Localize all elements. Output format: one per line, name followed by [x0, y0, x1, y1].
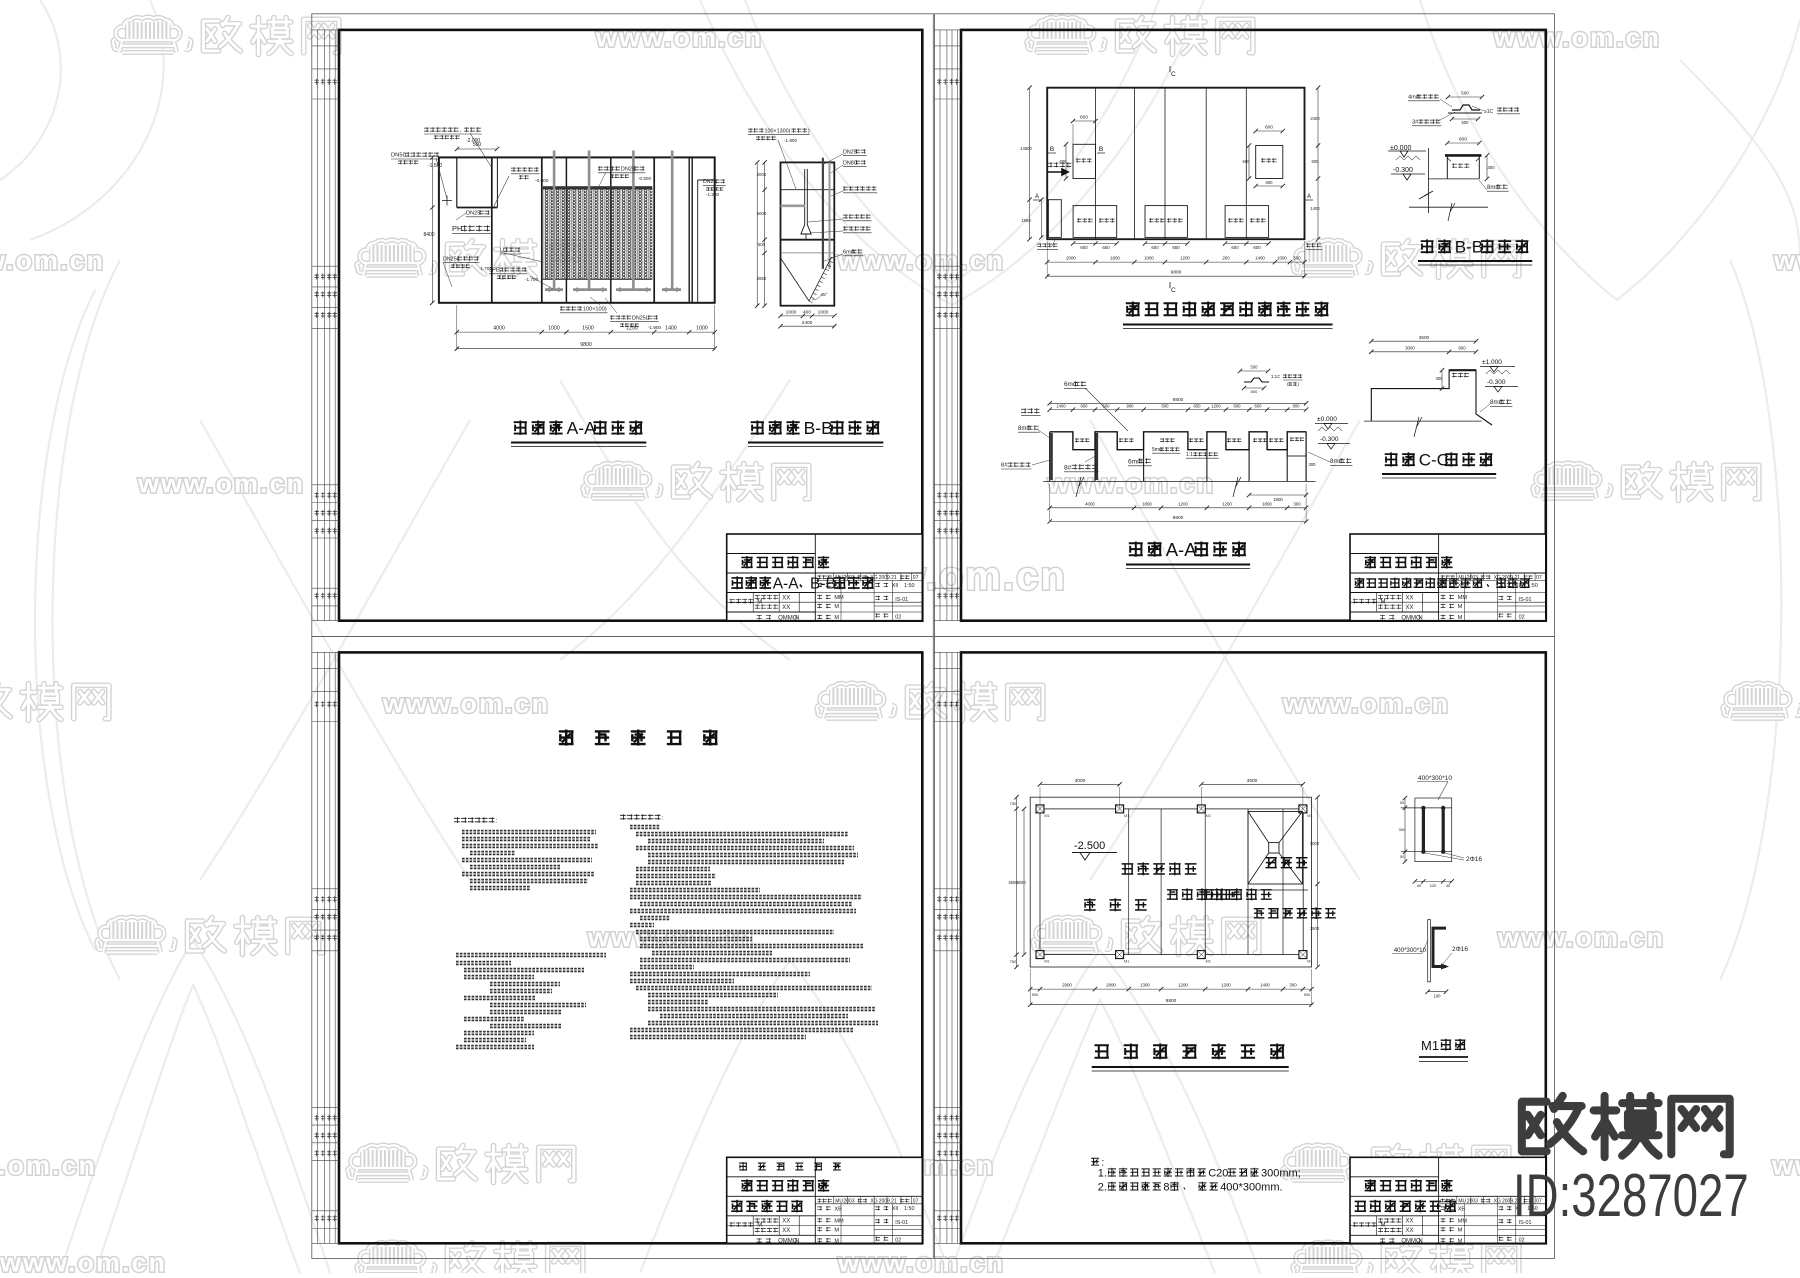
svg-text:M: M [1458, 1227, 1463, 1233]
svg-text:XX: XX [1406, 1219, 1414, 1225]
svg-text:500: 500 [1251, 365, 1259, 370]
svg-text:M: M [834, 1238, 839, 1244]
svg-text:1:1: 1:1 [1186, 452, 1193, 458]
svg-text:600: 600 [1265, 125, 1273, 131]
svg-text:600: 600 [1231, 245, 1239, 250]
B-B dims [781, 315, 835, 317]
sheet4 pool labels [1122, 862, 1197, 875]
svg-text:650: 650 [1194, 403, 1202, 408]
svg-text:XG: XG [1494, 575, 1501, 581]
svg-text:1200: 1200 [1178, 983, 1188, 988]
svg-text:M: M [1458, 615, 1463, 621]
svg-text:-0.000: -0.000 [535, 178, 549, 184]
svg-text:DN80: DN80 [843, 160, 857, 166]
svg-text:600: 600 [1312, 159, 1320, 164]
svg-text:500: 500 [1462, 120, 1470, 125]
sheet2: A-A long profile [1050, 432, 1306, 450]
svg-text:8400: 8400 [423, 232, 434, 238]
sheet 1 signature strip [312, 30, 339, 621]
svg-text:200: 200 [1222, 256, 1230, 261]
sheet4 plan dims [1040, 783, 1120, 785]
svg-text:100: 100 [1434, 994, 1442, 999]
sheet 4 outer border [934, 636, 1554, 1258]
A-A labels inside [1075, 438, 1089, 442]
svg-text:A-A: A-A [1166, 539, 1198, 560]
svg-text::: : [662, 814, 664, 821]
svg-text:±1.000: ±1.000 [1482, 359, 1502, 366]
svg-text:400*300*10: 400*300*10 [1418, 775, 1452, 782]
svg-text:±0.000: ±0.000 [1317, 416, 1337, 423]
svg-text:4000: 4000 [493, 326, 505, 332]
svg-text:1000: 1000 [786, 309, 797, 315]
svg-text:www.om.cn: www.om.cn [1493, 23, 1661, 53]
svg-text:600: 600 [1081, 403, 1089, 408]
svg-text:XX: XX [782, 595, 790, 601]
svg-text:8mm: 8mm [1018, 426, 1031, 432]
svg-text:www.om.cn: www.om.cn [595, 23, 763, 53]
svg-text:500: 500 [1251, 389, 1258, 394]
svg-text:www.om.cn: www.om.cn [0, 246, 105, 276]
svg-text:XB: XB [1458, 583, 1466, 589]
svg-text:1200: 1200 [1178, 501, 1188, 506]
svg-text:C20: C20 [1208, 1167, 1228, 1179]
svg-text:1000: 1000 [818, 309, 829, 315]
svg-text:IS-01: IS-01 [895, 1220, 908, 1226]
svg-text:www.om.cn: www.om.cn [0, 1248, 167, 1273]
svg-text:1800: 1800 [1110, 256, 1120, 261]
svg-text:XG: XG [1494, 1198, 1501, 1204]
svg-text:14500: 14500 [1020, 146, 1032, 151]
svg-text:XX: XX [782, 1219, 790, 1225]
svg-text:9800: 9800 [1166, 998, 1177, 1004]
B-B center pipe + funnel [804, 169, 806, 225]
svg-text:MM: MM [1458, 1218, 1468, 1224]
svg-text:M1: M1 [1307, 960, 1312, 964]
svg-text:9800: 9800 [1171, 270, 1182, 276]
sheet 1 title block [727, 534, 923, 621]
sheet1 bottom dims [457, 331, 715, 333]
svg-text:XB: XB [1458, 1206, 1466, 1212]
svg-text:IS-01: IS-01 [895, 597, 908, 603]
svg-text:3000: 3000 [1310, 841, 1320, 846]
B-B pipes [822, 158, 824, 269]
svg-text:1:50: 1:50 [904, 583, 915, 589]
svg-text:www.om.cn: www.om.cn [137, 469, 305, 499]
svg-text:07: 07 [913, 1198, 919, 1204]
svg-text:1400: 1400 [1056, 403, 1066, 408]
svg-text:M1: M1 [1421, 1038, 1439, 1053]
svg-text:XX: XX [782, 1228, 790, 1234]
svg-text:500: 500 [1304, 993, 1310, 997]
sheet 2 outer border [934, 14, 1554, 637]
svg-text:2Φ16: 2Φ16 [1452, 946, 1468, 953]
sheet 1 outer border [312, 14, 934, 637]
svg-text:B-B: B-B [1455, 238, 1483, 257]
svg-text:2003: 2003 [1467, 575, 1478, 581]
svg-text:500: 500 [473, 142, 482, 148]
svg-text:www.om.cn: www.om.cn [1497, 923, 1665, 953]
svg-text:1500: 1500 [1310, 926, 1320, 931]
svg-text:2009.21: 2009.21 [879, 575, 897, 581]
svg-text:2650: 2650 [757, 276, 767, 281]
svg-text:M1: M1 [1044, 960, 1049, 964]
svg-text:-1.500: -1.500 [428, 163, 442, 169]
svg-text:www.om.cn: www.om.cn [382, 689, 550, 719]
svg-text:50: 50 [1400, 801, 1404, 805]
sheet 3 outer border [312, 636, 934, 1258]
svg-text:DN25: DN25 [621, 167, 635, 173]
svg-text:MM: MM [834, 595, 844, 601]
svg-text:XX: XX [782, 605, 790, 611]
svg-text:3600: 3600 [1419, 335, 1430, 340]
svg-text:-1.200: -1.200 [706, 192, 719, 197]
svg-text:2400: 2400 [1310, 116, 1320, 121]
svg-text:MU: MU [835, 575, 843, 581]
sheet1: A-A section tank drawing [439, 157, 715, 302]
svg-text:1300: 1300 [1140, 983, 1150, 988]
svg-text:M: M [1458, 604, 1463, 610]
A-A bottom dims [1249, 494, 1306, 496]
svg-text:07: 07 [1536, 575, 1542, 581]
svg-text:XX: XX [1406, 595, 1414, 601]
svg-text:XII: XII [1515, 583, 1522, 589]
svg-text:www.om.cn: www.om.cn [1773, 246, 1800, 276]
svg-text:XG: XG [870, 1198, 877, 1204]
svg-text:A: A [1035, 194, 1039, 200]
svg-text:DN25: DN25 [843, 149, 857, 155]
svg-text:220: 220 [1430, 883, 1437, 888]
svg-text:1800: 1800 [1142, 501, 1152, 506]
svg-text:8#: 8# [1064, 464, 1072, 471]
sheet4 column plates [1036, 805, 1044, 813]
sheet4 grid lines [1128, 809, 1130, 955]
svg-text:600: 600 [1266, 180, 1274, 185]
sheet2 plan title [1126, 302, 1329, 317]
svg-text:1:50: 1:50 [1527, 583, 1538, 589]
svg-text:600: 600 [1151, 245, 1159, 250]
svg-text:1400: 1400 [1260, 983, 1270, 988]
A-A top dims [1050, 402, 1306, 404]
svg-text:MM: MM [1458, 595, 1468, 601]
svg-text:600: 600 [1234, 403, 1242, 408]
svg-text:MU: MU [1458, 1198, 1466, 1204]
svg-text:M: M [1381, 599, 1386, 605]
svg-text:2009.21: 2009.21 [879, 1198, 897, 1204]
B-B valve pit box [1447, 142, 1479, 144]
sheet 4 signature strip [934, 652, 961, 1243]
svg-text:3000: 3000 [1016, 880, 1026, 885]
svg-text:02: 02 [895, 614, 901, 620]
svg-text:800: 800 [1293, 403, 1301, 408]
svg-text:650: 650 [1102, 245, 1110, 250]
svg-text:300: 300 [1399, 827, 1406, 832]
svg-text:B: B [1099, 146, 1103, 153]
svg-text:2Φ16: 2Φ16 [1466, 856, 1482, 863]
watermark giant curves [0, 0, 61, 180]
svg-text:2900: 2900 [1062, 983, 1072, 988]
svg-text:300: 300 [1289, 983, 1297, 988]
svg-text:M1: M1 [1124, 960, 1129, 964]
sheet1: B-B section drawing [781, 162, 835, 305]
svg-text:2003: 2003 [1467, 1198, 1478, 1204]
svg-text:1:50: 1:50 [904, 1206, 915, 1212]
svg-text:02: 02 [1519, 614, 1525, 620]
sheet2 plan openings [1073, 144, 1096, 178]
svg-text:1400: 1400 [1255, 256, 1265, 261]
sheet4: foundation plan [1030, 797, 1311, 967]
svg-text:M: M [1381, 1223, 1386, 1229]
svg-text:600: 600 [1253, 245, 1261, 250]
svg-text:IS-01: IS-01 [1519, 597, 1532, 603]
svg-text:A-A: A-A [773, 575, 800, 592]
svg-text:1800: 1800 [1262, 501, 1272, 506]
svg-text:600: 600 [1080, 115, 1088, 121]
bottom-right big brand logo [1522, 1096, 1730, 1157]
svg-text:1200: 1200 [1211, 403, 1221, 408]
sheet 3 title block [727, 1157, 923, 1243]
sheet 4 title block [1350, 1157, 1546, 1243]
svg-text:600: 600 [1060, 159, 1068, 164]
svg-text:1200: 1200 [1180, 256, 1190, 261]
svg-text:750: 750 [1010, 801, 1017, 806]
svg-text:B-B: B-B [810, 575, 836, 592]
sheet 2 inner thick frame [961, 30, 1546, 621]
svg-text:N: N [1418, 1239, 1422, 1245]
svg-text:-0.500: -0.500 [638, 176, 651, 181]
svg-text:M: M [834, 604, 839, 610]
svg-text:02: 02 [1519, 1238, 1525, 1244]
svg-text:300: 300 [1309, 462, 1317, 467]
svg-text:A-A: A-A [567, 418, 597, 438]
svg-text:3500: 3500 [1247, 778, 1258, 784]
svg-text:600: 600 [1243, 159, 1251, 164]
svg-text:3#: 3# [1412, 120, 1419, 126]
sheet1 right chamber [697, 180, 699, 303]
svg-text:500: 500 [1103, 403, 1111, 408]
svg-text:C-C: C-C [1419, 451, 1449, 470]
svg-text:-0.300: -0.300 [1393, 167, 1413, 174]
svg-text:M1: M1 [1044, 814, 1049, 818]
svg-text:3000: 3000 [1405, 345, 1415, 350]
svg-text:M1: M1 [1206, 814, 1211, 818]
A-A profile bottom line [1043, 480, 1315, 482]
svg-text:B-B: B-B [804, 418, 833, 438]
svg-text:500: 500 [1032, 993, 1038, 997]
svg-text:750: 750 [1010, 959, 1017, 964]
svg-text:M: M [757, 599, 762, 605]
svg-text:N: N [795, 615, 799, 621]
svg-text:1900: 1900 [1273, 497, 1283, 502]
svg-text:DN25: DN25 [703, 179, 716, 185]
svg-text:A: A [1307, 194, 1311, 200]
svg-text:2003: 2003 [844, 575, 855, 581]
svg-text:www.om.cn: www.om.cn [0, 1151, 97, 1181]
sheet 4 inner thick frame [961, 652, 1546, 1243]
svg-text:-0.300: -0.300 [1487, 379, 1506, 386]
svg-text:B: B [1050, 146, 1054, 153]
svg-text:400*300*10: 400*300*10 [1394, 947, 1427, 954]
svg-text:DN25L: DN25L [632, 315, 649, 321]
svg-text:400*300mm.: 400*300mm. [1220, 1181, 1282, 1193]
sheet3: general notes title [559, 730, 718, 746]
sheet4: channel detail [1428, 920, 1431, 982]
svg-text:50: 50 [1400, 855, 1404, 859]
svg-text:02: 02 [895, 1238, 901, 1244]
svg-text:600: 600 [1458, 345, 1466, 350]
svg-text:3000: 3000 [1075, 778, 1086, 784]
svg-text:400: 400 [803, 309, 811, 315]
svg-text:600: 600 [1080, 245, 1088, 250]
svg-text:9800: 9800 [580, 342, 592, 348]
svg-text:): ) [808, 128, 810, 134]
svg-text:2400: 2400 [802, 320, 813, 326]
svg-text:8mm: 8mm [1487, 185, 1500, 191]
svg-text:5000: 5000 [757, 211, 767, 216]
svg-text:XX: XX [1406, 1228, 1414, 1234]
svg-text:1000: 1000 [696, 326, 708, 332]
svg-text:DN50: DN50 [391, 153, 406, 159]
svg-text:1200: 1200 [1222, 501, 1232, 506]
sheet2 plan dims [1073, 120, 1096, 122]
svg-text:MU: MU [835, 1198, 843, 1204]
svg-text:1500: 1500 [582, 326, 594, 332]
svg-text:500: 500 [1461, 91, 1469, 96]
svg-text:www.om.cn: www.om.cn [1047, 469, 1215, 499]
svg-text:07: 07 [913, 575, 919, 581]
sheet 3 inner thick frame [339, 652, 922, 1243]
svg-text:XB: XB [834, 583, 842, 589]
svg-text:N: N [1418, 615, 1422, 621]
svg-text:M1: M1 [1206, 960, 1211, 964]
sheet1 bottom diffuser arrows [545, 288, 681, 291]
svg-text:C: C [1171, 71, 1176, 78]
svg-text:600: 600 [1255, 403, 1263, 408]
sheet1 media hatch block [543, 189, 653, 280]
svg-text:500: 500 [1162, 403, 1170, 408]
sheet 2 signature strip [934, 30, 961, 621]
svg-text:2009.21: 2009.21 [1502, 575, 1520, 581]
sheet 1 inner thick frame [339, 30, 922, 621]
svg-text:≥1C: ≥1C [1484, 109, 1494, 115]
svg-text:900: 900 [1127, 403, 1135, 408]
svg-text:MU: MU [1458, 575, 1466, 581]
svg-text:9800: 9800 [1173, 515, 1184, 521]
svg-text:XX: XX [1406, 605, 1414, 611]
svg-text:8#: 8# [1001, 463, 1008, 469]
sheet2: C-C roof detail [1371, 340, 1476, 342]
svg-text:M: M [757, 1223, 762, 1229]
svg-text:M: M [834, 1227, 839, 1233]
svg-text:600: 600 [1459, 137, 1467, 143]
svg-text:8: 8 [1163, 1181, 1169, 1193]
svg-text:2000: 2000 [757, 172, 767, 177]
sheet1 inlet notch [457, 207, 498, 209]
svg-text:N: N [795, 1239, 799, 1245]
svg-text:1200: 1200 [1221, 983, 1231, 988]
svg-text:www.om.cn: www.om.cn [1771, 1151, 1800, 1181]
sheet 3 signature strip [312, 652, 339, 1243]
svg-text:DN25(: DN25( [443, 256, 459, 262]
svg-text:300mm;: 300mm; [1261, 1167, 1301, 1179]
svg-text:XII: XII [892, 583, 899, 589]
svg-text:9800: 9800 [1173, 397, 1184, 403]
svg-text:PH: PH [452, 224, 462, 233]
svg-text:1850: 1850 [1021, 218, 1031, 223]
svg-text:M: M [834, 615, 839, 621]
svg-text:1.: 1. [1098, 1167, 1107, 1179]
A-A handle mini detail [1240, 370, 1268, 372]
svg-text:100×1300(: 100×1300( [765, 128, 791, 134]
sheet2: top plate plan drawing [1047, 88, 1304, 240]
svg-text:500: 500 [1293, 256, 1301, 261]
svg-text:650: 650 [1172, 245, 1180, 250]
svg-text:-2.500: -2.500 [1074, 840, 1105, 852]
svg-text:M: M [1458, 1238, 1463, 1244]
svg-text:1400: 1400 [665, 326, 677, 332]
svg-text:500: 500 [758, 242, 766, 247]
svg-text:100×100): 100×100) [583, 307, 607, 313]
svg-text:ID:3287027: ID:3287027 [1513, 1163, 1749, 1229]
B-B hopper slope [781, 258, 810, 301]
svg-text:XB: XB [834, 1206, 842, 1212]
svg-text:M1: M1 [1307, 814, 1312, 818]
svg-text:2003: 2003 [844, 1198, 855, 1204]
sheet 2 title block [1350, 534, 1546, 621]
svg-text:-1.900: -1.900 [648, 325, 661, 330]
svg-text:1000: 1000 [548, 326, 560, 332]
sheet4 plan title [1095, 1044, 1285, 1060]
watermark rows: sofa + brand + www.om.cn [113, 17, 191, 53]
svg-text:www.om.cn: www.om.cn [837, 1248, 1005, 1273]
svg-text:3PE: 3PE [489, 268, 500, 274]
sheet2: B-B roof detail [1448, 96, 1482, 98]
svg-text:XII: XII [892, 1206, 899, 1212]
svg-text:2800: 2800 [1106, 983, 1116, 988]
svg-text:300: 300 [1293, 501, 1301, 506]
svg-text:MM: MM [834, 1218, 844, 1224]
svg-text:XG: XG [870, 575, 877, 581]
svg-text:1000: 1000 [1277, 256, 1287, 261]
svg-text:C: C [1171, 287, 1176, 294]
svg-text:1000: 1000 [1144, 256, 1154, 261]
sheet1 vertical pipes [553, 151, 556, 290]
svg-text:-0.300: -0.300 [1320, 436, 1339, 443]
svg-text:www.om.cn: www.om.cn [1282, 689, 1450, 719]
svg-text:4000: 4000 [1085, 501, 1095, 506]
sheet4 secondary clarifier hopper [1248, 812, 1302, 885]
svg-text:DN25: DN25 [466, 211, 480, 217]
svg-text:1:1C: 1:1C [1271, 374, 1280, 379]
sheet1 left dim [431, 157, 433, 302]
svg-text:M1: M1 [1124, 814, 1129, 818]
svg-text:40: 40 [1446, 884, 1450, 888]
svg-text:2000: 2000 [1066, 256, 1076, 261]
sheet1 tank partitions [456, 157, 458, 207]
svg-text:300: 300 [1436, 376, 1444, 381]
svg-text:2.: 2. [1098, 1181, 1107, 1193]
svg-text:300: 300 [1487, 165, 1495, 170]
svg-text::: : [496, 817, 498, 824]
sheet2 plan partitions [1095, 88, 1097, 240]
svg-text:1400: 1400 [1310, 206, 1320, 211]
svg-text:40: 40 [1417, 884, 1421, 888]
svg-text:-1.900: -1.900 [784, 138, 797, 143]
A-A profile end bars [1049, 432, 1051, 482]
